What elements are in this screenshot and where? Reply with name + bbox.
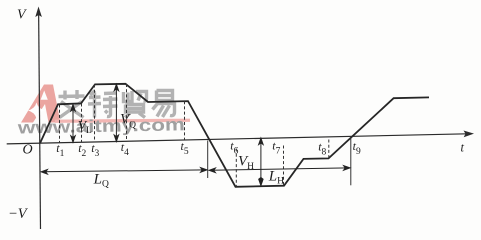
arrow VL [71,105,75,143]
watermark logo A counter [41,91,48,100]
svg-text:−V: −V [8,206,29,222]
watermark logo star [28,103,45,119]
dashed line t6 [235,149,237,187]
svg-text:t: t [461,140,465,154]
arrow LQ [41,168,207,175]
svg-text:V: V [17,8,27,23]
arrow VQ [114,84,118,141]
x-axis arrowhead [464,131,475,138]
arrow VH [259,138,263,186]
watermark char 4 (易) [153,91,175,118]
dashed line t1 [59,105,61,143]
tick at end of LQ span [207,141,209,179]
watermark red underline bar [55,119,190,123]
dashed line t2 [81,104,83,143]
watermark char 2 (特) [88,91,118,118]
svg-text:O: O [23,143,33,158]
dashed line t3 [94,85,96,143]
dashed line t7 [283,146,285,186]
dashed line t8 [328,140,330,159]
y-axis arrowhead [35,7,42,18]
tick at t9 [350,136,352,185]
y-axis [39,9,41,229]
arrow LH [209,166,350,173]
watermark logo A [21,85,61,123]
watermark char 1 (艾) [59,90,85,118]
x-axis [7,134,467,144]
dashed line t5 [184,101,186,140]
svg-text:www.aitmy.com: www.aitmy.com [16,114,185,137]
watermark char 3 (贸) [124,91,147,118]
dashed line t4 [126,84,128,141]
waveform [40,84,429,187]
